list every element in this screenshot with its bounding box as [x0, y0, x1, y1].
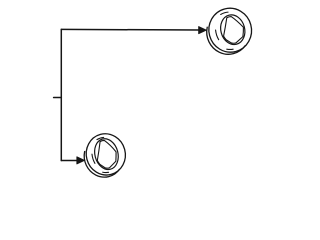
lower part outer rim ellipse: [82, 129, 130, 179]
arrowhead to lower part: [77, 157, 85, 164]
lower part rim depth arc A: [103, 171, 109, 174]
upper part rim depth arc B: [215, 30, 218, 40]
upper part rim depth arc A: [227, 48, 233, 51]
lower part inner spring retainer: [93, 138, 120, 170]
upper part outer rim ellipse: [204, 3, 257, 57]
tick: callout dash on leader: [54, 97, 62, 99]
wire: bottom horizontal leader line: [61, 160, 78, 162]
wire: top horizontal leader line: [61, 28, 199, 31]
lower part rim top highlight arc: [97, 137, 104, 139]
upper part side wall arc: [205, 19, 247, 59]
upper part inner bore ellipse: [217, 12, 248, 47]
upper part inner spring retainer: [219, 14, 247, 46]
lower part rim depth arc B: [92, 154, 95, 163]
upper retainer ring part: [201, 3, 256, 59]
lower part inner bore ellipse: [91, 136, 121, 172]
arrowhead to upper part: [199, 27, 207, 34]
lower retainer ring part: [79, 129, 130, 181]
wire: vertical leader line: [60, 29, 62, 160]
lower part side wall arc: [82, 144, 120, 182]
upper part rim top highlight arc: [221, 12, 229, 15]
